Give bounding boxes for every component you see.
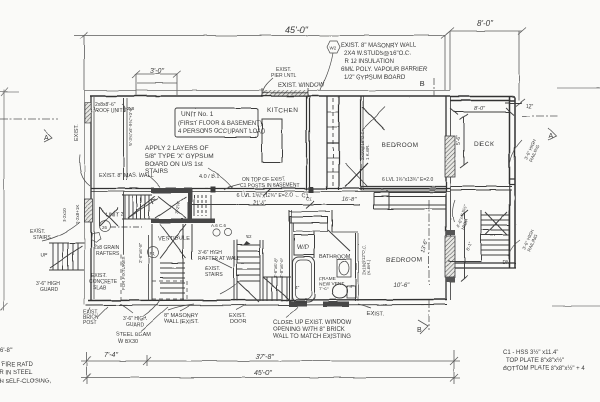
svg-text:FOR FIXTURES: FOR FIXTURES [121, 257, 126, 290]
svg-text:45'-0": 45'-0" [254, 370, 272, 377]
svg-text:4": 4" [349, 284, 354, 290]
svg-text:STEEL BEAM: STEEL BEAM [116, 332, 151, 338]
svg-text:WITH SELF-CLOSING,: WITH SELF-CLOSING, [0, 379, 51, 385]
svg-text:OOR IN STEEL: OOR IN STEEL [0, 370, 33, 376]
svg-text:STAIRS: STAIRS [33, 235, 51, 241]
svg-text:8'-0": 8'-0" [474, 106, 486, 112]
svg-text:R 12 INSULATION: R 12 INSULATION [344, 59, 394, 65]
svg-text:BATHROOM: BATHROOM [319, 254, 351, 260]
svg-text:5'-6": 5'-6" [456, 135, 462, 145]
svg-text:STAIRS: STAIRS [205, 272, 223, 278]
svg-text:W2: W2 [330, 46, 337, 51]
svg-text:BOTTOM PLATE 8"x8"x½" + 4: BOTTOM PLATE 8"x8"x½" + 4 [503, 365, 585, 372]
svg-text:C1: C1 [306, 196, 312, 201]
svg-text:A: A [44, 135, 49, 142]
svg-text:BOARD ON U/S 1st: BOARD ON U/S 1st [145, 161, 203, 168]
svg-text:KITCHEN: KITCHEN [267, 107, 298, 114]
svg-text:ES FIRE RATD: ES FIRE RATD [0, 362, 34, 368]
svg-text:EXIST. WINDOW: EXIST. WINDOW [278, 83, 325, 89]
svg-text:6MIL POLY. VAPOUR BARRIER: 6MIL POLY. VAPOUR BARRIER [341, 67, 428, 73]
svg-text:5'-3¾"x6'-9¾"+3'-6": 5'-3¾"x6'-9¾"+3'-6" [128, 106, 133, 146]
svg-text:P1: P1 [150, 251, 156, 256]
svg-text:21'-6": 21'-6" [253, 200, 266, 206]
svg-text:(FIRST FLOOR & BASEMENT): (FIRST FLOOR & BASEMENT) [178, 121, 262, 127]
svg-text:3'-6"x6'-8": 3'-6"x6'-8" [273, 257, 278, 278]
svg-text:WALL (EXIST.: WALL (EXIST. [164, 319, 199, 325]
svg-text:8'-0": 8'-0" [477, 19, 494, 28]
svg-text:EXIST. 8" MASONRY WALL: EXIST. 8" MASONRY WALL [341, 43, 417, 49]
svg-text:DN: DN [502, 260, 510, 266]
svg-text:UNIT No. 1: UNIT No. 1 [181, 111, 214, 118]
svg-text:UNIT 2: UNIT 2 [106, 212, 123, 218]
svg-text:PIER LNTL: PIER LNTL [271, 73, 297, 79]
svg-text:POST: POST [83, 320, 97, 326]
svg-text:TOP PLATE 8"x8"x½": TOP PLATE 8"x8"x½" [506, 357, 564, 364]
svg-text:DECK: DECK [474, 141, 495, 148]
svg-text:RAFTERS: RAFTERS [96, 251, 120, 257]
svg-text:26: 26 [102, 225, 108, 230]
svg-text:B: B [417, 327, 422, 334]
svg-text:16'-8": 16'-8" [342, 197, 357, 203]
svg-text:B2: B2 [246, 234, 252, 239]
svg-text:BEDROOM: BEDROOM [386, 257, 422, 264]
svg-text:W/D: W/D [297, 245, 309, 251]
svg-text:6 LVL 1¾"x13¾" E=2.0: 6 LVL 1¾"x13¾" E=2.0 [382, 177, 433, 183]
svg-text:EXIST. 8" MAS. WALL: EXIST. 8" MAS. WALL [99, 173, 154, 179]
svg-text:4": 4" [295, 285, 300, 291]
svg-text:5/8" TYPE 'X' GYPSUM: 5/8" TYPE 'X' GYPSUM [145, 153, 214, 160]
svg-text:GUARD: GUARD [126, 322, 144, 328]
svg-text:APPLY 2 LAYERS OF: APPLY 2 LAYERS OF [145, 145, 209, 152]
svg-text:10'-6": 10'-6" [394, 283, 410, 289]
svg-text:2'-8"x6'-8": 2'-8"x6'-8" [279, 257, 284, 278]
svg-text:2'-6"x6'-8": 2'-6"x6'-8" [138, 242, 143, 263]
svg-text:UP: UP [40, 253, 48, 259]
svg-text:WALL TO MATCH EXISTING: WALL TO MATCH EXISTING [273, 334, 351, 340]
svg-text:37'-8": 37'-8" [256, 354, 274, 361]
svg-text:W 8X30: W 8X30 [118, 339, 138, 345]
svg-text:4 PERSONS OCCUPANT LOAD: 4 PERSONS OCCUPANT LOAD [178, 129, 266, 135]
svg-text:OPENING WITH 8" BRICK: OPENING WITH 8" BRICK [273, 327, 345, 333]
svg-text:6 LVL 1¾"x11¾" E=2.0 ← C1: 6 LVL 1¾"x11¾" E=2.0 ← C1 [237, 193, 309, 199]
svg-text:A.6 C.6: A.6 C.6 [211, 223, 227, 228]
svg-text:3'-0": 3'-0" [150, 68, 164, 75]
svg-text:BEDROOM: BEDROOM [382, 142, 418, 149]
svg-text:2X4 W.STUDS@16"O.C.: 2X4 W.STUDS@16"O.C. [344, 51, 411, 57]
svg-text:4.0 / B.1: 4.0 / B.1 [199, 174, 220, 180]
svg-text:3-2x10: 3-2x10 [62, 208, 67, 222]
svg-text:7'-6": 7'-6" [319, 286, 329, 292]
svg-text:SLAB: SLAB [93, 285, 106, 291]
svg-text:CLOSE UP EXIST. WINDOW: CLOSE UP EXIST. WINDOW [273, 320, 352, 326]
svg-text:1/2" GYPSUM BOARD: 1/2" GYPSUM BOARD [344, 75, 406, 81]
svg-text:12": 12" [526, 104, 534, 110]
svg-text:(K.BR.): (K.BR.) [366, 260, 371, 275]
svg-text:1 K.BR.: 1 K.BR. [365, 144, 370, 160]
svg-text:DOOR: DOOR [230, 319, 247, 325]
svg-text:EXIST.: EXIST. [74, 124, 80, 141]
svg-text:ROOF UNITS: ROOF UNITS [95, 108, 126, 114]
svg-text:45'-0": 45'-0" [285, 25, 309, 35]
svg-text:B: B [420, 81, 425, 88]
svg-text:RAFTER AT WALL: RAFTER AT WALL [198, 256, 240, 262]
svg-text:7'-4": 7'-4" [104, 352, 118, 359]
svg-text:VESTIBULE: VESTIBULE [158, 236, 190, 242]
svg-text:C1 POSTS IN BASEMENT: C1 POSTS IN BASEMENT [240, 183, 300, 189]
svg-text:C1 - HSS 3½" x11.4": C1 - HSS 3½" x11.4" [503, 349, 559, 356]
svg-text:A: A [548, 133, 553, 140]
svg-text:6'-8": 6'-8" [0, 348, 12, 354]
svg-text:2-2x8+1K: 2-2x8+1K [75, 205, 80, 224]
svg-text:GUARD: GUARD [40, 287, 58, 293]
svg-text:EXIST.: EXIST. [367, 311, 384, 317]
